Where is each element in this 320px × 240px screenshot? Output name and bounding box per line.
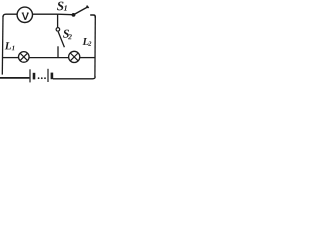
wire: lamp L1 to S2 junction to lamp L2	[29, 57, 68, 59]
wire: S1 fixed contact to top-right corner	[90, 15, 95, 18]
battery cell 2 short thick plate	[51, 73, 54, 80]
label L1	[5, 42, 11, 49]
label S2	[63, 30, 69, 38]
switch S1 blade (open)	[74, 7, 88, 14]
lamp L2	[69, 51, 80, 62]
voltmeter V	[17, 7, 32, 22]
wire: junction to switch S1 pivot	[58, 13, 73, 16]
wire: lamp L2 to right edge	[80, 57, 96, 59]
wire: voltmeter to junction	[32, 13, 57, 15]
wire: bottom row right (battery to right edge)	[53, 77, 95, 79]
switch S2 blade (open)	[58, 32, 64, 47]
wire: S2 branch upper vertical	[57, 14, 59, 27]
wire: S2 branch lower stub	[57, 46, 59, 58]
switch S1 pivot dot	[72, 13, 76, 17]
label S1	[57, 2, 63, 11]
battery cell 1 long plate	[29, 69, 31, 82]
label L2	[83, 38, 89, 45]
wire: middle row left edge to lamp L1	[3, 57, 19, 59]
lamp L1	[19, 52, 30, 63]
wire: left edge vertical	[1, 16, 4, 75]
switch S1 blade tip cap	[87, 6, 89, 8]
wire: top-left corner rounded	[3, 14, 17, 17]
switch S2 pivot ring	[56, 28, 60, 32]
battery cell 1 short thick plate	[33, 73, 36, 80]
battery cell 2 long plate	[47, 69, 49, 82]
wire: right edge vertical	[94, 16, 96, 77]
wire: bottom row left (battery to left edge)	[0, 77, 29, 79]
battery dotted link	[38, 77, 46, 79]
